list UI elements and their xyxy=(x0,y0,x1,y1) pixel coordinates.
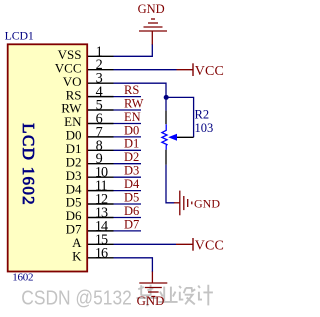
wire pin16 to GND xyxy=(114,258,153,272)
wire stub D1 xyxy=(114,149,142,151)
pin 11 D4 xyxy=(66,178,114,196)
svg-text:D4: D4 xyxy=(124,177,140,191)
pin 2 VCC xyxy=(55,57,114,75)
svg-text:D0: D0 xyxy=(124,123,139,137)
resistor R2 zigzag body xyxy=(162,124,167,150)
ground GND right symbol xyxy=(180,191,192,216)
ground GND top stem xyxy=(151,31,153,45)
wire pin1 to GND xyxy=(114,44,153,56)
watermark char she xyxy=(179,286,195,305)
power VCC pin2 symbol xyxy=(177,63,194,76)
wire stub D6 xyxy=(114,217,142,219)
pin 9 D2 xyxy=(66,151,114,169)
svg-text:D5: D5 xyxy=(124,190,139,204)
wire stub D7 xyxy=(114,230,142,232)
svg-text:D2: D2 xyxy=(124,150,139,164)
svg-text:D1: D1 xyxy=(124,137,139,151)
pin 5 RW xyxy=(61,98,113,116)
ground GND bottom symbol xyxy=(139,283,167,297)
svg-text:1602: 1602 xyxy=(12,272,33,284)
pin 13 D6 xyxy=(66,205,114,223)
wire pin15 to VCC xyxy=(114,243,177,245)
pin 4 RS xyxy=(66,84,114,102)
wire pin3 VO to potentiometer xyxy=(114,83,167,110)
svg-text:LCD1: LCD1 xyxy=(5,29,34,43)
svg-text:VCC: VCC xyxy=(195,239,224,254)
pin 6 EN xyxy=(64,111,113,129)
svg-text:RW: RW xyxy=(124,96,144,110)
wire stub D4 xyxy=(114,190,142,192)
svg-text:D3: D3 xyxy=(124,164,139,178)
wire pin2 to VCC xyxy=(114,69,177,71)
svg-text:GND: GND xyxy=(138,2,165,16)
watermark char bi xyxy=(137,285,159,307)
pin 16 K xyxy=(72,245,113,263)
svg-text:RS: RS xyxy=(124,83,139,97)
svg-text:R2: R2 xyxy=(195,107,210,121)
pin 3 VO xyxy=(63,71,114,89)
wire wiper loop xyxy=(166,97,193,137)
svg-text:D6: D6 xyxy=(124,204,139,218)
wire pot bottom to GND xyxy=(166,165,175,203)
pin 14 D7 xyxy=(66,218,114,236)
svg-text:K: K xyxy=(72,249,82,264)
svg-text:D7: D7 xyxy=(124,217,139,231)
wire stub EN xyxy=(114,123,142,125)
watermark char ye xyxy=(158,287,177,302)
pin 12 D5 xyxy=(66,192,114,210)
wire stub RW xyxy=(114,109,142,111)
wire stub D5 xyxy=(114,203,142,205)
svg-text:GND: GND xyxy=(137,294,165,308)
pin 15 A xyxy=(72,232,113,250)
wire stub D2 xyxy=(114,163,142,165)
ground GND bottom stem xyxy=(151,272,153,284)
svg-text:GND: GND xyxy=(194,196,220,210)
pin 1 VSS xyxy=(58,44,114,62)
svg-text:VCC: VCC xyxy=(195,64,224,79)
potentiometer R2 wiper pin xyxy=(177,136,194,138)
pin 8 D1 xyxy=(66,138,114,156)
ground GND top symbol xyxy=(139,19,167,31)
wire stub RS xyxy=(114,96,142,98)
svg-text:CSDN @5132: CSDN @5132 xyxy=(21,288,132,310)
potentiometer R2 bottom pin xyxy=(165,150,167,165)
pin 10 D3 xyxy=(66,165,114,183)
potentiometer R2 top pin xyxy=(165,111,167,125)
svg-text:EN: EN xyxy=(124,110,141,124)
watermark char ji xyxy=(198,285,213,306)
wire stub D3 xyxy=(114,176,142,178)
pin 7 D0 xyxy=(66,124,114,142)
ground GND right stub xyxy=(174,202,180,204)
svg-text:103: 103 xyxy=(195,121,214,135)
LCD U1 body xyxy=(8,44,88,271)
potentiometer R2 wiper arrow xyxy=(168,134,177,141)
wire stub D0 xyxy=(114,136,142,138)
svg-text:16: 16 xyxy=(95,245,108,261)
svg-text:LCD 1602: LCD 1602 xyxy=(19,123,38,206)
junction node VO wiper xyxy=(164,95,169,100)
power VCC pin15 symbol xyxy=(176,238,193,251)
